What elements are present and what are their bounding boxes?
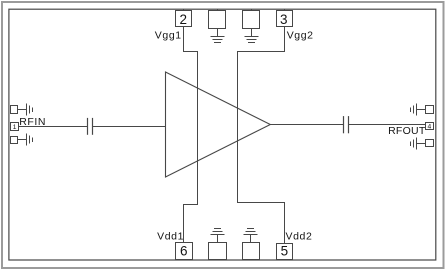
pad 5 (Vdd2 pin): [277, 244, 293, 260]
svg-text:1: 1: [13, 124, 17, 131]
svg-text:6: 6: [180, 244, 188, 259]
wire RF input (pad 1 to C1): [19, 126, 88, 128]
ground bottom C: [211, 229, 225, 243]
svg-text:Vgg1: Vgg1: [155, 29, 182, 41]
pad 2 (Vgg1 pin): [176, 9, 192, 27]
pad RFIN upper ground: [11, 106, 27, 114]
svg-text:5: 5: [281, 244, 289, 259]
svg-text:4: 4: [428, 124, 432, 131]
svg-text:2: 2: [179, 12, 187, 27]
capacitor C2 output DC block: [344, 116, 349, 133]
wire C1 to amplifier input: [93, 126, 166, 128]
pad bottom bypass D: [243, 243, 260, 260]
pad RFOUT lower ground: [417, 140, 434, 147]
pad 3 (Vgg2 pin): [277, 9, 293, 27]
pad bottom bypass C: [209, 243, 227, 260]
pad top bypass B: [243, 9, 260, 29]
ground RFIN upper: [27, 104, 33, 116]
capacitor C1 input DC block: [88, 118, 93, 135]
ground RFOUT lower: [411, 138, 417, 150]
svg-text:RFOUT: RFOUT: [388, 125, 426, 137]
wire amplifier output to C2: [270, 124, 343, 126]
svg-text:Vgg2: Vgg2: [287, 29, 314, 41]
pad RFIN lower ground: [11, 137, 27, 144]
svg-text:Vdd1: Vdd1: [157, 231, 184, 243]
ground top B: [245, 29, 259, 43]
ground RFOUT upper: [411, 104, 417, 116]
pad 4 (RFOUT pin): [426, 123, 434, 130]
ground top A: [211, 29, 225, 43]
svg-text:3: 3: [280, 12, 288, 27]
wire Vgg1/Vdd1 bias line: [184, 27, 198, 244]
ground RFIN lower: [27, 134, 33, 146]
pad RFOUT upper ground: [417, 106, 434, 114]
pad 1 (RFIN pin): [11, 123, 19, 131]
wire C2 to pad 4: [349, 124, 426, 126]
amplifier U1: [166, 72, 271, 177]
svg-text:Vdd2: Vdd2: [286, 231, 313, 243]
pad top bypass A: [209, 9, 226, 29]
wire Vgg2/Vdd2 bias line: [238, 27, 285, 245]
ground bottom D: [244, 229, 258, 243]
pad 6 (Vdd1 pin): [176, 243, 193, 260]
